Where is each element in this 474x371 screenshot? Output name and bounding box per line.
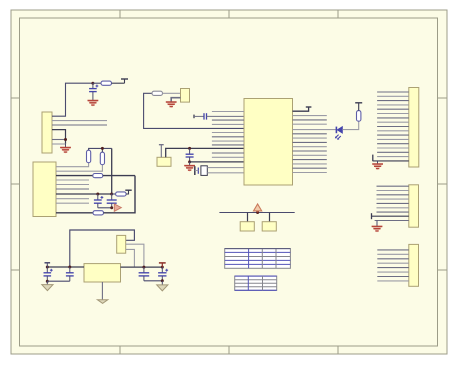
pin U1 left 1 xyxy=(212,111,244,113)
capacitor C1 xyxy=(89,83,98,100)
wire J4 pin 4 xyxy=(377,198,409,200)
junction OSC C2 xyxy=(96,193,99,196)
ground GND8 xyxy=(157,281,168,291)
led D1 xyxy=(335,127,343,140)
ground GND5 xyxy=(372,161,383,170)
regulator U7 xyxy=(84,264,121,282)
component U2 xyxy=(181,89,190,103)
pin U1 left 2 xyxy=(212,119,244,121)
connector J1 xyxy=(42,112,52,153)
wire R1 to VCC T xyxy=(112,82,125,84)
junction C6 bottom xyxy=(46,280,49,283)
pin U1 left 8 xyxy=(212,152,244,154)
junction reg in b xyxy=(68,266,71,269)
pin U1 right 3 xyxy=(293,119,327,121)
wire crystal pin a xyxy=(207,167,244,169)
wire J3 pin 1 xyxy=(377,91,409,93)
connector J3 xyxy=(409,88,419,168)
wire J1 pin3 xyxy=(52,124,107,126)
wire J3 pin 5 xyxy=(377,108,409,110)
wire J3 pin 11 xyxy=(377,134,409,136)
ground GND4 xyxy=(184,162,195,172)
wire J4 pin 5 xyxy=(377,202,409,204)
ground GND6 xyxy=(372,221,383,233)
power arrow right xyxy=(114,204,121,211)
wire J3 pin 3 xyxy=(377,100,409,102)
wire J3 pin 7 xyxy=(377,117,409,119)
wire J4 pin 3 xyxy=(377,194,409,196)
ground GND3 xyxy=(166,102,177,108)
junction J1 ground xyxy=(64,138,67,141)
power VCC T1 xyxy=(121,79,128,83)
capacitor C8 xyxy=(139,267,150,281)
ground GND9 xyxy=(97,300,107,304)
wire J4 pin 2 xyxy=(377,190,409,192)
wire J3 ground pin xyxy=(373,160,409,162)
wire caps bottom left xyxy=(47,280,70,282)
connector J2 xyxy=(33,162,56,217)
wire J2 pin7 OSC net xyxy=(56,193,112,195)
pin U1 right 7 xyxy=(293,141,327,143)
power VCC T4 xyxy=(355,103,362,111)
capacitor C5 xyxy=(194,113,244,119)
pin U3 top T xyxy=(159,145,164,158)
pin U1 right 11 xyxy=(293,159,327,161)
pin U1 right 12 xyxy=(293,163,327,165)
component U6 xyxy=(117,235,126,253)
junction RB top xyxy=(101,147,104,150)
capacitor C7 xyxy=(66,267,74,281)
wire J5 pin 7 xyxy=(377,276,409,278)
resistor R7 xyxy=(93,211,104,215)
pin U1 right 10 xyxy=(293,154,327,156)
connector J4 xyxy=(409,185,419,227)
pin U1 right 5 xyxy=(293,133,327,135)
wire J4 long pin xyxy=(372,215,409,217)
crystal Y1 xyxy=(195,166,207,176)
wire J2 pin8 xyxy=(56,198,89,200)
wire U3 to IC xyxy=(166,148,244,157)
junction reg out a xyxy=(142,266,145,269)
wire J4 pin 1 xyxy=(377,185,409,187)
wire U2 to ground xyxy=(171,98,180,102)
wire J2 pin5 xyxy=(56,184,89,186)
junction C9 bottom xyxy=(161,279,164,282)
junction C4 bottom xyxy=(188,160,191,163)
pin U1 right 8 xyxy=(293,146,327,148)
wire J3 pin 9 xyxy=(377,126,409,128)
wire J5 pin 1 xyxy=(377,249,409,251)
resistor R3 xyxy=(87,150,91,163)
wire power rail xyxy=(219,212,294,214)
pin U1 left 9 xyxy=(212,156,244,158)
wire loop R7 to R5 xyxy=(104,176,136,213)
wire J1 pin2 xyxy=(52,120,107,122)
resistor R6 xyxy=(112,192,126,196)
pin U1 right 4 xyxy=(293,123,327,125)
wire reg input xyxy=(47,266,84,268)
tick J4 xyxy=(371,213,373,219)
wire LED to R8 xyxy=(342,121,358,129)
wire reg output xyxy=(121,266,163,268)
wire U1 vcc pin xyxy=(293,107,309,111)
capacitor C2 xyxy=(94,194,103,208)
power VCC T3 xyxy=(306,106,312,108)
pin U1 right 13 xyxy=(293,167,327,169)
pin U1 left 3 xyxy=(212,123,244,125)
wire RA RB tops xyxy=(89,148,112,152)
wire R5 to loop right xyxy=(103,175,135,177)
wire U1 to LED xyxy=(293,129,337,131)
tick J3 xyxy=(372,155,374,162)
wire J2 pin3 to R5 xyxy=(56,175,93,177)
resistor R1 xyxy=(101,81,112,85)
wire OSC vertical xyxy=(111,148,113,194)
wire J1 pin1 to node A xyxy=(52,83,93,116)
capacitor C4 xyxy=(186,148,194,162)
wire crystal pin b xyxy=(207,172,244,174)
node A junction xyxy=(91,82,94,85)
junction reg in a xyxy=(46,266,49,269)
wire J3 pin 15 xyxy=(377,151,409,153)
wire to U4 xyxy=(247,213,249,222)
wire C4 to IC xyxy=(190,161,244,163)
wire J3 pin 16 xyxy=(377,156,409,158)
wire J4 pin 6 xyxy=(377,207,409,209)
junction C4 top xyxy=(188,147,191,150)
table TB1 xyxy=(225,249,291,269)
wire J1 pin4 to ground net xyxy=(52,130,66,144)
component U4 xyxy=(240,222,254,231)
junction OSC cross xyxy=(110,193,113,196)
wire J3 pin 2 xyxy=(377,95,409,97)
wire C2 C3 bottoms xyxy=(98,207,112,209)
pin U1 right 2 xyxy=(293,115,327,117)
component U3 xyxy=(157,157,171,166)
wire to U5 xyxy=(269,213,271,222)
wire J3 pin 4 xyxy=(377,104,409,106)
junction C3 bottom xyxy=(110,206,113,209)
wire J5 pin 4 xyxy=(377,262,409,264)
power VCC arrow up xyxy=(254,204,262,213)
wire node A to R1 xyxy=(93,82,101,84)
pin U1 left 4 xyxy=(212,132,244,134)
pin U1 left 6 xyxy=(212,140,244,142)
wire J2 pin9 xyxy=(56,202,89,204)
ic U1 xyxy=(244,99,293,186)
wire J2 pin6 xyxy=(56,188,89,190)
wire J3 pin 14 xyxy=(377,147,409,149)
pin U1 left 5 xyxy=(212,136,244,138)
wire J3 pin 10 xyxy=(377,130,409,132)
wire J3 pin 12 xyxy=(377,138,409,140)
wire J2 pin10 to R7 xyxy=(56,212,93,214)
wire reg gnd xyxy=(101,282,103,300)
table TB2 xyxy=(235,276,277,290)
wire J1 pin5 xyxy=(52,139,66,141)
wire J5 pin 3 xyxy=(377,258,409,260)
wire J5 pin 8 xyxy=(377,280,409,282)
wire net to R2 xyxy=(144,93,244,128)
wire J2 pin4 xyxy=(56,179,89,181)
wire reg top xyxy=(70,230,135,267)
wire caps bottom right xyxy=(144,280,162,282)
wire J3 pin 8 xyxy=(377,121,409,123)
ground GND1 xyxy=(88,101,99,107)
wire J2 pin2 to RB xyxy=(56,165,102,171)
wire J3 pin 6 xyxy=(377,113,409,115)
ground GND7 xyxy=(42,281,53,290)
wire J4 ground pin xyxy=(375,220,409,222)
component U5 xyxy=(262,222,276,231)
wire U6 pin2 xyxy=(126,244,144,267)
ground GND2 xyxy=(60,144,71,154)
junction rail xyxy=(256,211,259,214)
capacitor C6 xyxy=(44,263,53,281)
capacitor C9 xyxy=(158,263,168,281)
power VCC T2 xyxy=(125,190,131,194)
connector J5 xyxy=(409,244,419,286)
wire J5 pin 6 xyxy=(377,271,409,273)
resistor R8 xyxy=(357,111,361,122)
wire J5 pin 2 xyxy=(377,253,409,255)
resistor R4 xyxy=(100,152,104,165)
wire J4 pin 7 xyxy=(377,211,409,213)
wire J5 pin 5 xyxy=(377,267,409,269)
capacitor C3 xyxy=(107,194,117,208)
pin U1 right 6 xyxy=(293,137,327,139)
junction reg out b xyxy=(161,266,164,269)
pin U1 right 14 xyxy=(293,172,327,174)
wire U6 pin3 xyxy=(126,249,135,267)
pin U1 right 9 xyxy=(293,150,327,152)
wire J1 pin6 xyxy=(52,143,66,145)
resistor R5 xyxy=(93,174,103,178)
resistor R2 xyxy=(152,91,163,95)
wire J2 pin1 to RA xyxy=(56,163,89,167)
pin U1 left 7 xyxy=(212,144,244,146)
wire R2 to U2 xyxy=(163,92,181,94)
wire J3 pin 13 xyxy=(377,143,409,145)
